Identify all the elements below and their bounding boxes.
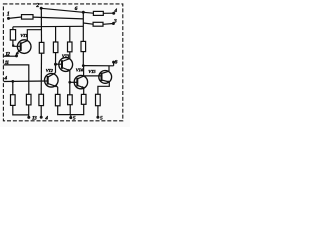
node 2 (pin 2 dot)	[40, 7, 43, 10]
wire R15 bottom to pin7 dot	[97, 106, 99, 118]
wire node6 to R7	[83, 11, 93, 14]
wire VT3 collector up to R5	[69, 52, 71, 59]
node 6 (pin 6 dot)	[82, 11, 85, 14]
resistor R5	[68, 42, 73, 52]
resistor R12	[55, 94, 60, 105]
wire pin 11	[4, 65, 29, 94]
wire VT1 collector up and right to node2 column	[27, 30, 41, 41]
resistor R6	[81, 41, 86, 51]
wire R6 bottom to node8 rail	[82, 52, 84, 66]
resistor R3	[39, 42, 44, 53]
wire R7 to pin4	[103, 12, 113, 14]
wire node6 vertical down to R6	[82, 12, 84, 41]
svg-text:4: 4	[113, 8, 117, 14]
node R9 top junction dot	[11, 80, 14, 83]
wire rail drop to R4	[55, 27, 57, 43]
resistor R7	[93, 11, 103, 15]
dashed enclosure border	[3, 4, 122, 121]
wire pin8 stub up	[113, 62, 115, 66]
svg-text:4: 4	[3, 75, 7, 81]
resistor R8	[93, 22, 103, 26]
node pin12 junction dot	[15, 54, 18, 57]
transistor VT4	[74, 75, 87, 88]
resistor R2	[10, 30, 15, 40]
transistor VT3	[59, 58, 73, 72]
svg-text:1: 1	[7, 12, 10, 18]
wire R4 bottom to VT3 base node	[55, 53, 57, 65]
wire node8 horizontal	[83, 65, 113, 67]
wire node6 column to R8	[83, 23, 93, 24]
svg-text:5: 5	[100, 115, 103, 121]
wire R1 to node6 column (long rail)	[33, 17, 83, 19]
wire R2 bottom to VT1 base	[13, 40, 21, 46]
wire VT5 emitter down and left to R15	[98, 82, 109, 94]
svg-text:6: 6	[75, 6, 78, 12]
svg-text:VT5: VT5	[88, 69, 96, 74]
transistor VT5	[99, 71, 112, 84]
wire VT3 base node to base bar	[56, 63, 63, 65]
svg-text:13: 13	[32, 116, 37, 122]
svg-text:3: 3	[113, 18, 117, 24]
wire node2 vertical down to R3	[40, 8, 42, 42]
node 3 (pin 3 dot)	[112, 22, 115, 25]
wire rail drop to R5	[69, 27, 71, 43]
wire R11 bottom to pin dot	[40, 106, 42, 118]
resistor R11	[39, 94, 44, 105]
wire rail to R2 top	[12, 27, 14, 30]
wire drop to pin5 dot	[70, 115, 72, 118]
svg-text:VT3: VT3	[62, 53, 70, 58]
wire R9 bottom L to pin13 node	[13, 105, 29, 115]
node 5 (pin 5 dot)	[69, 116, 72, 119]
wire VT3 emitter down to R13	[69, 71, 71, 95]
wire R10 bottom to pin13 dot	[28, 105, 30, 118]
resistor R15	[96, 94, 101, 105]
svg-text:VT4: VT4	[76, 68, 84, 73]
wire VT2 collector up to VT3 base node	[55, 64, 57, 73]
svg-text:4: 4	[44, 115, 48, 121]
svg-text:5: 5	[73, 115, 76, 121]
resistor R4	[53, 42, 58, 53]
svg-text:VT2: VT2	[46, 68, 54, 73]
wire pin 14 (lower left input) to VT2 base	[4, 80, 48, 83]
wire VT1 emitter down to pin12 node	[16, 53, 18, 56]
svg-text:2: 2	[35, 3, 39, 9]
svg-text:VT1: VT1	[20, 33, 27, 38]
transistor VT1	[17, 40, 32, 55]
node 13 (pin 13 dot)	[27, 116, 30, 119]
resistor R9	[11, 95, 16, 106]
wire R9 top lead	[12, 81, 14, 94]
transistor VT2	[45, 73, 59, 87]
wire pin1 to R1	[9, 17, 22, 18]
node 4 (pin 4 dot)	[112, 12, 115, 15]
node VT3 base junction dot	[54, 63, 57, 66]
node 4a (bottom pin dot)	[40, 116, 43, 119]
wire R8 to pin3	[103, 23, 113, 26]
node R6/VT4 collector junction dot	[82, 64, 85, 67]
resistor R14	[81, 94, 86, 104]
node 8 (pin 8 dot)	[112, 61, 115, 64]
node R2/base junction dot	[12, 44, 14, 46]
node 1 (pin 1 dot)	[7, 17, 10, 20]
wire bottom connector joining R12 R13 R14	[58, 104, 84, 114]
wire VT5 base from VT4 collector	[84, 75, 102, 77]
wire R3 down to R11	[40, 53, 42, 94]
wire VT2 emitter down to R12	[57, 87, 59, 95]
resistor R13	[68, 95, 73, 105]
wire VT4 emitter down to R14	[83, 88, 85, 95]
resistor R10	[26, 94, 31, 105]
svg-text:8: 8	[115, 59, 118, 65]
wire pin 12	[4, 55, 17, 57]
wire node2 to node6	[41, 8, 83, 12]
node 7 (pin 7 dot)	[96, 116, 99, 119]
wire VT4 collector up to R6 node	[83, 66, 85, 77]
resistor R1	[22, 15, 34, 20]
wire VT5 collector up to node8 wire	[108, 66, 110, 71]
node VT4 base junction dot	[68, 81, 71, 84]
supply rail y26.5	[13, 25, 83, 28]
wire VT4 base	[70, 81, 78, 83]
